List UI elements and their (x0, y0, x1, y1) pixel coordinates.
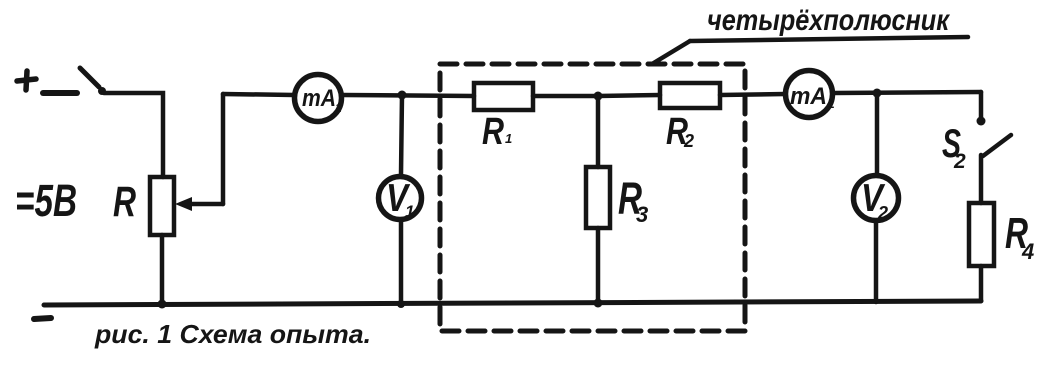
wire node to R2 (598, 95, 660, 96)
wire from plus terminal (43, 90, 77, 96)
wire wiper riser to top (221, 94, 226, 204)
junction R3 bottom (594, 299, 603, 308)
wire node to voltmeter V1 (401, 95, 402, 174)
wire corner down to switch S2 (979, 92, 984, 121)
svg-text:1: 1 (505, 131, 512, 146)
svg-text:1: 1 (828, 97, 835, 111)
wire R2 to ammeter mA2 (720, 94, 785, 95)
bottom wire (44, 301, 981, 305)
svg-text:=5В: =5В (15, 175, 77, 226)
resistor R3 (586, 167, 610, 228)
svg-text:1: 1 (335, 101, 342, 115)
wire node down to R3 (596, 96, 601, 167)
svg-text:mA: mA (790, 83, 827, 110)
dashed four-terminal network box (440, 64, 745, 331)
junction S2 contact (977, 117, 986, 126)
svg-text:2: 2 (953, 150, 966, 173)
wire switch to potentiometer top (104, 93, 163, 177)
plus terminal (17, 71, 36, 90)
svg-text:4: 4 (1021, 239, 1034, 264)
wire riser to ammeter mA1 (223, 94, 294, 95)
ammeter mA1 (295, 75, 343, 122)
resistor R2 (660, 83, 720, 108)
wire switch S2 to R4 (979, 155, 984, 203)
svg-text:1: 1 (405, 202, 414, 221)
svg-text:R: R (482, 111, 504, 153)
junction V1 bottom (397, 300, 405, 308)
svg-text:2: 2 (683, 131, 694, 151)
junction potentiometer bottom (158, 300, 167, 309)
wire mA1 to resistor R1 (343, 95, 474, 96)
voltmeter V1 (379, 177, 422, 222)
callout diagonal to dashed box (652, 41, 690, 64)
svg-text:рис. 1 Схема опыта.: рис. 1 Схема опыта. (94, 319, 371, 349)
junction R1 R2 R3 (594, 92, 603, 101)
callout underline (690, 37, 968, 41)
minus terminal (34, 318, 51, 319)
wire R4 to bottom wire (979, 266, 984, 301)
svg-text:mA: mA (302, 85, 336, 112)
wire R1 to center node (533, 94, 598, 99)
resistor R4 (969, 203, 994, 266)
junction top node V2 (873, 89, 882, 98)
wire V2 to bottom wire (874, 223, 879, 302)
ammeter mA2 (786, 71, 836, 118)
svg-text:R: R (113, 178, 136, 226)
resistor R1 (474, 83, 533, 110)
potentiometer wiper arrow (175, 197, 223, 211)
svg-text:четырёхполюсник: четырёхполюсник (707, 4, 951, 37)
switch S2 blade (983, 135, 1011, 156)
wire potentiometer bottom (160, 235, 165, 304)
wire mA2 to top right corner (834, 92, 981, 93)
switch S1 blade (80, 68, 106, 95)
wire V1 to bottom wire (399, 222, 404, 304)
wire R3 bottom (596, 228, 601, 303)
wire node to voltmeter V2 (875, 93, 880, 174)
potentiometer R body (150, 177, 174, 235)
svg-text:2: 2 (877, 203, 888, 223)
voltmeter V2 (854, 176, 899, 224)
junction top node V1 (398, 91, 407, 100)
svg-text:3: 3 (636, 202, 648, 227)
